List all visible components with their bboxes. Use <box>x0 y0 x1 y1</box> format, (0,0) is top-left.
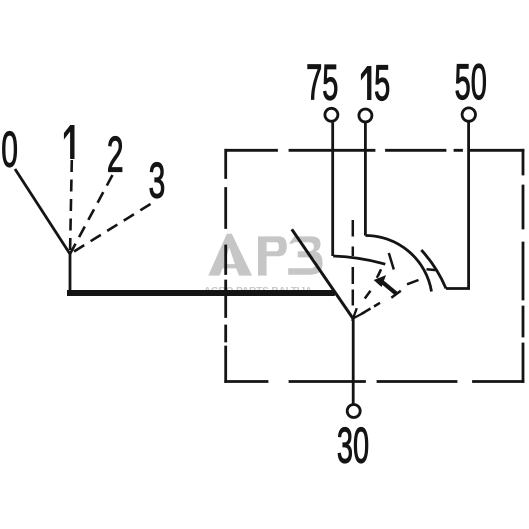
label 2 <box>107 127 124 183</box>
svg-text:30: 30 <box>337 417 369 473</box>
selector position 0 line <box>15 169 70 254</box>
svg-text:50: 50 <box>455 54 487 110</box>
contact arc B (terminal 15) <box>365 235 431 291</box>
wire from pivot to terminal 30 <box>352 319 355 404</box>
label 3 <box>149 153 166 209</box>
terminal circle 75 <box>325 108 338 121</box>
watermark APB logo <box>208 234 322 276</box>
svg-text:5: 5 <box>374 55 390 111</box>
arrowhead at pivot <box>353 308 365 318</box>
position 2 dashed line in box <box>365 269 381 298</box>
position 3 dashed line in box <box>361 280 419 314</box>
dashed box bottom edge <box>226 380 523 383</box>
terminal circle 30 <box>347 405 360 418</box>
tick between arcs B and C <box>427 269 438 270</box>
selector position 1 dashed line <box>70 160 72 254</box>
switch wiper (position 0) <box>292 229 353 318</box>
position 2 tick across arc <box>389 253 394 270</box>
svg-text:3: 3 <box>149 153 166 209</box>
dashed box top edge <box>226 149 523 152</box>
terminal circle 50 <box>462 108 475 121</box>
label 75 <box>306 54 338 110</box>
spring-return arrow <box>375 271 401 298</box>
selector stem <box>69 254 72 292</box>
label 0 <box>1 121 18 177</box>
label 1 <box>64 125 75 159</box>
label 30 <box>337 417 369 473</box>
dashed box left edge <box>224 150 227 381</box>
wire from terminal 15 <box>364 123 367 236</box>
svg-text:75: 75 <box>306 54 338 110</box>
position 1 dashed line in box <box>352 220 355 306</box>
label 15 <box>361 66 372 100</box>
label 50 <box>455 54 487 110</box>
wire from terminal 75 <box>331 122 334 256</box>
dashed box right edge <box>522 150 525 381</box>
selector position 3 dashed line <box>70 204 151 254</box>
contact arc A (terminal 75) <box>333 256 385 264</box>
svg-text:2: 2 <box>107 127 124 183</box>
selector position 2 dashed line <box>70 175 113 254</box>
terminal circle 15 <box>359 109 372 122</box>
thick wire from selector to switch <box>67 290 335 296</box>
wire from terminal 50 <box>446 122 469 288</box>
contact arc C (terminal 50) <box>421 250 446 289</box>
